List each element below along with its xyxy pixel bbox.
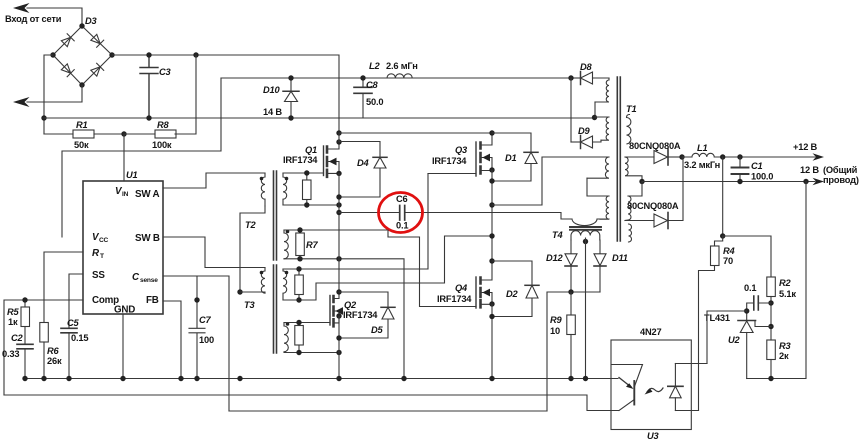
transformer T4 core — [570, 227, 601, 230]
label R7 — [306, 240, 319, 250]
node L2 D8 — [568, 75, 573, 80]
label T3 — [244, 300, 255, 310]
wire R4 feed — [722, 157, 724, 236]
svg-text:T: T — [100, 253, 104, 260]
capacitor 0.1 TL431 — [747, 296, 771, 311]
node R2 cap — [768, 300, 773, 305]
transformer T3 core — [274, 265, 277, 353]
bridge diode lower-right — [90, 63, 103, 76]
wire +12V rail — [723, 156, 815, 158]
svg-text:U2: U2 — [728, 335, 741, 345]
label R1 — [74, 120, 89, 150]
label D1 — [505, 153, 517, 163]
label R8 — [152, 120, 172, 150]
svg-text:R7: R7 — [306, 240, 319, 250]
label T4 — [552, 230, 563, 240]
svg-text:IRF1734: IRF1734 — [343, 310, 378, 320]
node return drop — [803, 179, 808, 184]
svg-text:D2: D2 — [506, 289, 519, 299]
T2 primary winding — [261, 173, 265, 206]
bridge diode lower-left — [61, 63, 74, 76]
resistor R6 — [40, 323, 49, 379]
svg-text:C1: C1 — [751, 161, 763, 171]
svg-text:5.1к: 5.1к — [779, 289, 796, 299]
svg-text:C3: C3 — [159, 67, 172, 77]
svg-text:D12: D12 — [546, 253, 563, 263]
node C8 top — [360, 75, 365, 80]
label D2 — [506, 289, 519, 299]
svg-text:SS: SS — [92, 270, 105, 281]
svg-text:50.0: 50.0 — [366, 97, 383, 107]
label C6 — [396, 194, 408, 231]
label 80CNQ080A bottom — [627, 201, 679, 211]
label Q4 — [437, 283, 472, 304]
wire mains top — [27, 8, 82, 26]
svg-text:14 В: 14 В — [263, 107, 282, 117]
node rail A drop — [336, 130, 341, 135]
wire LED anode bottom — [675, 410, 698, 412]
node D12 R9 — [568, 289, 573, 294]
T2 secondary2 phase dot — [286, 230, 290, 234]
T1 right windingC — [625, 196, 631, 221]
svg-text:D1: D1 — [505, 153, 517, 163]
svg-text:R1: R1 — [76, 120, 88, 130]
label U3 — [647, 431, 660, 441]
T3 secondary2 winding — [284, 323, 288, 352]
wire 12V return rail — [642, 181, 815, 183]
wire R4 to R2 — [723, 236, 771, 277]
svg-text:FB: FB — [146, 295, 159, 306]
opto light arrow — [647, 388, 663, 392]
node D5 return — [336, 335, 341, 340]
node Q3 drain — [489, 130, 494, 135]
node gnd GND — [120, 376, 125, 381]
capacitor C1 — [732, 157, 749, 182]
diode D1 — [492, 133, 538, 181]
svg-text:R3: R3 — [779, 341, 792, 351]
svg-text:3.2 мкГн: 3.2 мкГн — [684, 160, 720, 170]
shunt regulator U2 TL431 — [738, 311, 756, 379]
wire Q2 source to ground — [338, 316, 340, 379]
label D12 — [546, 253, 563, 263]
svg-text:Q3: Q3 — [455, 145, 468, 155]
transistor Q2 — [330, 292, 339, 326]
wire mains bottom — [27, 85, 82, 102]
label D9 — [578, 126, 591, 136]
svg-text:R6: R6 — [47, 346, 60, 356]
node D4 return — [336, 194, 341, 199]
node L1 R4 — [720, 154, 725, 159]
pin Csense label — [132, 272, 158, 284]
svg-text:Q4: Q4 — [455, 283, 468, 293]
svg-text:R: R — [92, 248, 100, 259]
node Comp R5 — [22, 297, 27, 302]
svg-text:2.6 мГн: 2.6 мГн — [386, 61, 418, 71]
node D10 top — [288, 75, 293, 80]
wire SWA out — [163, 173, 265, 188]
wire w1 return — [594, 102, 596, 117]
node x339 s2 join — [336, 350, 341, 355]
label 4N27 — [640, 327, 661, 337]
label Q1 — [283, 145, 318, 165]
label U2 — [728, 335, 741, 345]
T1 right windingB — [625, 157, 642, 182]
resistor Q3 gate — [295, 269, 304, 300]
node Q4 drain — [489, 258, 494, 263]
label D11 — [612, 253, 628, 263]
capacitor C2 — [17, 344, 33, 378]
diode D5 — [339, 292, 395, 338]
node bridge left — [50, 52, 55, 57]
svg-text:80CNQ080A: 80CNQ080A — [629, 141, 681, 151]
label T1 — [626, 104, 636, 114]
transistor Q3 — [476, 133, 492, 176]
svg-text:100: 100 — [199, 335, 214, 345]
svg-text:0.1: 0.1 — [744, 283, 756, 293]
wire SS — [69, 274, 83, 328]
node T4 ct gnd — [583, 376, 588, 381]
label C7 — [199, 315, 214, 345]
wire T2s1 source line — [283, 204, 339, 206]
svg-text:2к: 2к — [779, 351, 789, 361]
wire TL431 ref — [755, 321, 771, 327]
capacitor C3 — [140, 55, 158, 118]
node C1 top — [737, 154, 742, 159]
wire FB down — [163, 301, 181, 379]
diode D9 — [571, 136, 593, 149]
node midpoint primary tap — [489, 202, 494, 207]
node R7 top — [297, 227, 302, 232]
inductor L1 — [682, 153, 723, 157]
label C1 — [751, 161, 773, 182]
pin FB label — [146, 295, 159, 306]
label C5 — [67, 318, 88, 343]
T1 right windingA — [627, 115, 631, 144]
node Q1 source — [336, 171, 341, 176]
transformer T4 secondary — [571, 231, 600, 240]
label TL431 — [704, 313, 730, 323]
wire T2s1 gate line — [283, 172, 324, 174]
svg-text:0.33: 0.33 — [2, 349, 19, 359]
wire T2 primary return — [240, 206, 265, 292]
wire ground rail — [24, 378, 618, 380]
svg-text:T2: T2 — [245, 220, 256, 230]
diode 80CNQ080A bottom — [654, 157, 683, 229]
wire w2 to D9 — [593, 140, 601, 142]
label U1 — [126, 170, 138, 180]
wire csense rail bottom — [229, 410, 547, 412]
svg-text:D8: D8 — [580, 62, 593, 72]
svg-text:0.1: 0.1 — [396, 221, 408, 231]
wire SWB out — [163, 237, 265, 268]
svg-text:CC: CC — [99, 237, 109, 244]
node gnd C5 — [66, 376, 71, 381]
capacitor C5 — [61, 328, 77, 378]
transformer T2 core — [274, 171, 277, 260]
svg-text:1к: 1к — [8, 317, 18, 327]
svg-text:провод): провод) — [823, 175, 859, 185]
diode D11 — [594, 240, 606, 292]
svg-text:IN: IN — [122, 191, 129, 198]
svg-text:70: 70 — [723, 256, 733, 266]
label L2 — [369, 61, 418, 71]
pin SWB label — [135, 233, 160, 244]
svg-text:U1: U1 — [126, 170, 138, 180]
wire rail B minus — [44, 117, 594, 119]
arrow 12V — [813, 178, 825, 186]
node C3 top — [146, 52, 151, 57]
wire LED cathode top — [675, 363, 707, 365]
wire TL431 bottom rail — [747, 182, 806, 379]
resistor R5 — [21, 300, 30, 344]
node D10 bottom — [288, 115, 293, 120]
wire Q4 gate drive stepped — [388, 230, 476, 307]
wire T3s1 bottom line — [283, 236, 492, 300]
node T1 center tap — [639, 179, 644, 184]
svg-text:C8: C8 — [366, 80, 379, 90]
label D5 — [371, 325, 384, 335]
T2 secondary2 winding — [284, 230, 288, 259]
label 80CNQ080A top — [629, 141, 681, 151]
label D8 — [580, 62, 593, 72]
T1 left winding2 — [595, 117, 609, 140]
svg-text:D3: D3 — [85, 16, 98, 26]
diode D2 — [492, 261, 539, 317]
node gnd C7 — [194, 376, 199, 381]
svg-text:Q1: Q1 — [305, 145, 317, 155]
transformer T4 primary — [572, 219, 609, 226]
node minus rail — [41, 115, 46, 120]
node Q1 gateR bottom — [304, 202, 309, 207]
svg-text:R8: R8 — [157, 120, 170, 130]
node R4 top — [720, 233, 725, 238]
wire TL431 cathode to opto — [707, 311, 747, 364]
svg-text:C7: C7 — [199, 315, 212, 325]
node Q4 source — [489, 301, 494, 306]
svg-text:IRF1734: IRF1734 — [432, 156, 467, 166]
svg-text:T4: T4 — [552, 230, 563, 240]
wire bridge minus — [44, 55, 53, 134]
pin Comp label — [92, 295, 119, 306]
pin Vin label — [115, 186, 129, 198]
node R7 bottom — [297, 256, 302, 261]
label R3 — [779, 341, 792, 361]
arrow +12V — [813, 153, 825, 161]
wire midpoint column — [491, 170, 493, 261]
wire rectified sense line — [547, 292, 600, 411]
optocoupler U3 box — [611, 340, 691, 430]
node C1 bottom — [737, 179, 742, 184]
svg-text:D9: D9 — [578, 126, 591, 136]
transformer T1 core — [617, 77, 620, 241]
resistor Q1 gate — [303, 173, 312, 205]
node gnd s2 line — [401, 376, 406, 381]
opto phototransistor base arrow — [619, 378, 631, 388]
node Q3 gateR top — [296, 266, 301, 271]
diode 80CNQ080A top — [654, 149, 682, 165]
T1 left winding3 — [587, 157, 609, 178]
wire D8 D9 link — [570, 78, 572, 142]
resistor R3 — [767, 340, 776, 379]
diode D8 — [571, 72, 609, 85]
label cap 0.1 — [744, 283, 756, 293]
svg-text:0.15: 0.15 — [71, 333, 88, 343]
node Q3 gateR bottom — [296, 297, 301, 302]
resistor R7 — [296, 230, 305, 259]
label 12V common — [800, 165, 859, 185]
wire Csense out — [163, 276, 229, 411]
wire rectifier2 anode — [625, 220, 654, 222]
svg-text:80CNQ080A: 80CNQ080A — [627, 201, 679, 211]
node C3 bottom — [146, 115, 151, 120]
Q4 body arrow — [482, 289, 490, 297]
svg-text:C6: C6 — [396, 194, 408, 204]
node Q1 source line join — [336, 202, 341, 207]
wire T3s1 top line to Q3 gate riser — [283, 174, 428, 270]
bridge diode upper-right — [90, 34, 103, 47]
node TL431 ref — [768, 324, 773, 329]
pin Vcc label — [92, 232, 109, 244]
pin SWA label — [135, 189, 160, 200]
svg-text:SW B: SW B — [135, 233, 160, 244]
wire midpoint to T1 primary top — [492, 157, 609, 205]
node TL431 cathode — [744, 308, 749, 313]
wire Comp — [4, 300, 83, 395]
opto phototransistor — [612, 365, 643, 411]
wire rectifier1 anode — [625, 156, 654, 158]
T2 primary phase dot — [260, 177, 264, 181]
wire drain bus Q3 — [339, 132, 492, 134]
node Q2 gateR top — [296, 320, 301, 325]
node R3 bottom — [768, 376, 773, 381]
resistor R2 — [767, 277, 776, 340]
svg-text:Вход от сети: Вход от сети — [5, 14, 62, 24]
diode D4 — [339, 142, 387, 198]
node T3 primary top junction — [237, 289, 242, 294]
svg-text:10: 10 — [550, 326, 560, 336]
svg-text:100.0: 100.0 — [751, 172, 773, 182]
resistor Q2 gate — [295, 323, 304, 353]
T2 secondary1 winding — [283, 173, 287, 205]
label Q2 — [343, 300, 378, 320]
wire half bridge left column — [338, 133, 340, 292]
label R9 — [550, 315, 563, 336]
svg-text:+12 В: +12 В — [793, 142, 818, 152]
T3 secondary2 phase dot — [286, 322, 290, 326]
wire Q4 source down — [491, 304, 493, 379]
node Q2 gateR bottom — [296, 350, 301, 355]
bridge diode upper-left — [61, 34, 74, 47]
svg-text:T1: T1 — [626, 104, 636, 114]
Q3 body arrow — [482, 154, 490, 162]
capacitor C7 — [189, 276, 205, 379]
highlight red circle C6 — [379, 193, 423, 233]
svg-text:C: C — [132, 272, 140, 283]
diode bridge D3 — [53, 26, 112, 85]
node C7 tap — [194, 297, 199, 302]
label L1 — [684, 143, 720, 170]
resistor R1 — [44, 130, 124, 138]
wire 14V line — [221, 77, 571, 79]
wire center tap jog — [628, 182, 642, 197]
node Q1 drain — [336, 139, 341, 144]
wire T2s2 top line — [284, 229, 388, 231]
svg-text:D5: D5 — [371, 325, 384, 335]
T3 secondary1 winding — [283, 269, 287, 300]
node gnd T2 return — [237, 376, 242, 381]
svg-text:(Общий: (Общий — [823, 165, 858, 175]
svg-text:50к: 50к — [74, 140, 89, 150]
svg-text:12 В: 12 В — [800, 165, 819, 175]
wire Vin from divider — [123, 134, 125, 181]
svg-text:TL431: TL431 — [704, 313, 730, 323]
wire R8 right riser — [175, 55, 196, 134]
svg-text:IRF1734: IRF1734 — [283, 155, 318, 165]
svg-text:IRF1734: IRF1734 — [437, 294, 472, 304]
svg-text:SW A: SW A — [135, 189, 160, 200]
wire Q3 gate — [428, 173, 476, 175]
wire w3 w4 link — [587, 178, 609, 196]
node gnd R6 — [41, 376, 46, 381]
label T2 — [245, 220, 256, 230]
svg-text:R4: R4 — [723, 246, 736, 256]
wire Rt — [44, 252, 83, 323]
svg-text:U3: U3 — [647, 431, 660, 441]
svg-text:4N27: 4N27 — [640, 327, 661, 337]
wire GND down — [122, 314, 124, 379]
pin SS label — [92, 270, 105, 281]
transistor Q1 — [324, 142, 340, 177]
label Q3 — [432, 145, 468, 166]
svg-text:L1: L1 — [697, 143, 707, 153]
wire C6 line to T4 — [492, 213, 572, 220]
svg-text:D4: D4 — [357, 158, 370, 168]
node rail A x196 — [193, 52, 198, 57]
T3 primary winding — [240, 268, 265, 294]
node source rail x339 — [336, 256, 341, 261]
resistor R4 — [699, 236, 723, 411]
svg-text:C2: C2 — [11, 333, 24, 343]
label D4 — [357, 158, 370, 168]
label R6 — [47, 346, 62, 366]
label +12V — [793, 142, 818, 152]
label R4 — [723, 246, 736, 266]
T1 left winding4 — [600, 196, 609, 219]
label C3 — [159, 67, 172, 77]
node bridge top — [79, 23, 84, 28]
T3 secondary1 phase dot — [285, 271, 289, 275]
wire comp rail bottom — [4, 395, 619, 411]
diode D12 — [565, 240, 577, 292]
wire rail A plus — [112, 55, 339, 133]
resistor R8 — [124, 130, 176, 138]
diode D10 — [283, 78, 299, 118]
svg-text:L2: L2 — [369, 61, 380, 71]
wire T3s2 gate line Q2 — [284, 322, 330, 324]
svg-text:26к: 26к — [47, 356, 62, 366]
svg-text:R9: R9 — [550, 315, 563, 325]
node Q3 source — [489, 167, 494, 172]
label R2 — [779, 278, 796, 299]
node Q2 drain — [336, 289, 341, 294]
wire T2s2 bottom line — [284, 259, 404, 379]
svg-text:GND: GND — [114, 305, 135, 316]
node Q1 gateR top — [304, 170, 309, 175]
op-amp U1 controller box — [83, 181, 163, 314]
T1 left winding1 — [595, 78, 609, 102]
pin Rt label — [92, 248, 104, 260]
T2 secondary1 phase dot — [285, 177, 289, 181]
